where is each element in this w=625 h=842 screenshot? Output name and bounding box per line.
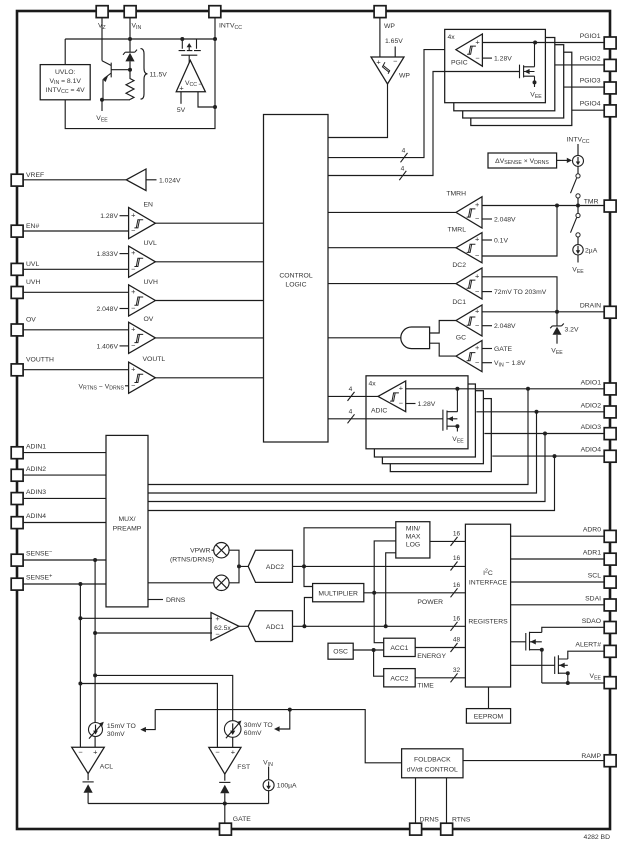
svg-text:ADIN4: ADIN4: [26, 513, 46, 520]
wire dV box to current source: [557, 159, 568, 161]
node ADC1 to MIN/MAX junction: [384, 624, 388, 628]
pin UVL: [11, 263, 23, 275]
zener diode D1: [123, 50, 137, 55]
pin VEE: [604, 677, 616, 689]
bus slash 32 TIME: [451, 673, 458, 682]
wire SDAI: [511, 604, 605, 606]
svg-text:ACC2: ACC2: [390, 675, 408, 682]
svg-text:48: 48: [453, 637, 461, 644]
svg-text:EEPROM: EEPROM: [474, 714, 504, 721]
wire ADIO2 to mux input 2: [148, 412, 537, 493]
svg-text:PREAMP: PREAMP: [113, 525, 142, 532]
pin OV: [11, 324, 23, 336]
wire ADC1 node to MIN/MAX: [386, 553, 396, 627]
wire ADIO4 to mux input 4: [148, 456, 555, 510]
svg-text:MAX: MAX: [406, 534, 421, 541]
svg-text:UVL: UVL: [144, 240, 157, 247]
wire DC1+ to DRAIN pin: [482, 311, 604, 313]
switch S2: [577, 206, 579, 214]
node M1 source junction: [540, 648, 544, 652]
wire SENSE+ branch to FST-: [80, 684, 217, 748]
comparator TMRL: [456, 233, 482, 263]
svg-text:1.28V: 1.28V: [100, 213, 118, 220]
svg-text:ADR0: ADR0: [583, 527, 601, 534]
node ADC1 output junction: [302, 624, 306, 628]
wire multiplier node to ACC1: [374, 593, 384, 643]
block I2C INTERFACE REGISTERS: [465, 524, 510, 687]
wire multiplier nodes to ADC2: [229, 550, 248, 583]
svg-text:ADR1: ADR1: [583, 550, 601, 557]
value 0.1V ref for TMRL: [482, 239, 492, 241]
svg-text:−: −: [475, 214, 479, 223]
op-amp VCC regulator: [176, 60, 205, 92]
svg-text:−: −: [475, 287, 479, 296]
op-amp VREF buffer 1.024V: [126, 169, 146, 191]
node ADIO3 mux tap: [543, 432, 547, 436]
wire SENSE- to 62.5x: [95, 632, 212, 634]
svg-text:OSC: OSC: [333, 649, 348, 656]
svg-text:REGISTERS: REGISTERS: [468, 619, 508, 626]
pin ALERT#: [604, 645, 616, 657]
wire SCL: [511, 581, 605, 583]
svg-text:+: +: [131, 248, 135, 257]
block EEPROM: [466, 709, 510, 724]
node VIN top wire junction: [128, 37, 132, 41]
svg-text:1.833V: 1.833V: [96, 251, 118, 258]
diode ACL output: [87, 774, 89, 781]
block UVLO: [40, 65, 90, 100]
svg-text:ADIN2: ADIN2: [26, 466, 46, 473]
svg-text:ΔVSENSE × VDRNS: ΔVSENSE × VDRNS: [495, 158, 549, 166]
wire GATE rail: [88, 803, 269, 805]
pin ADIN4: [11, 517, 23, 529]
wire I2C to SDAO gate: [511, 641, 526, 643]
wire DC2+ to DRAIN node: [482, 277, 557, 312]
current source 100uA gate pullup: [268, 767, 270, 780]
block MULTIPLIER: [313, 584, 364, 602]
node FST diode to GATE rail: [223, 802, 227, 806]
wire emitter rail to resistor bottom: [102, 99, 130, 101]
wire ADC2 output bus to I2C: [293, 565, 466, 567]
wire ADIN2 pin to mux: [23, 474, 106, 476]
wire SENSE- pin to mux: [23, 559, 106, 561]
brace 11.5V: [141, 49, 148, 100]
node SENSE- to FST branch: [93, 673, 97, 677]
transistor M0 PMOS pass device: [179, 39, 201, 51]
svg-text:VREF: VREF: [26, 172, 44, 179]
transistor Q1 NPN: [102, 61, 111, 100]
svg-text:−: −: [399, 399, 403, 408]
wire VZ pin to NPN collector: [101, 17, 103, 61]
svg-text:TMRH: TMRH: [446, 191, 466, 198]
wire SENSE+ vertical: [79, 584, 81, 747]
wire 4-bit bus control logic to ADIC gate: [328, 418, 443, 420]
pin GATE: [220, 823, 232, 835]
wire top loop of UVLO circuit: [65, 39, 215, 129]
svg-text:MUX/: MUX/: [119, 516, 136, 523]
svg-text:DRNS: DRNS: [420, 816, 440, 823]
wire OSC node to ACC2: [374, 650, 384, 676]
wire 62.5x to ADC1: [239, 625, 248, 627]
svg-text:UVL: UVL: [26, 261, 39, 268]
wire UVH pin to UVH comparator: [23, 291, 129, 293]
svg-text:+: +: [399, 383, 403, 392]
current source ACL threshold 15-30mV: [89, 723, 103, 737]
node base-zener junction: [128, 68, 132, 72]
svg-text:−: −: [131, 226, 135, 235]
wire RTNS drop: [446, 778, 448, 823]
svg-text:ADIO4: ADIO4: [581, 447, 602, 454]
pin RAMP: [604, 755, 616, 767]
wire ADIC output to ADIO1 pin: [406, 388, 605, 390]
value GATE ref for GC: [482, 348, 492, 350]
svg-text:GATE: GATE: [233, 816, 251, 823]
pin ADIO3: [604, 428, 616, 440]
svg-text:GC: GC: [456, 335, 466, 342]
pin DRAIN: [604, 306, 616, 318]
svg-text:ALERT#: ALERT#: [575, 642, 601, 649]
pin PGIO1: [604, 37, 616, 49]
pin TMR: [604, 200, 616, 212]
svg-text:+: +: [475, 235, 479, 244]
bus slash 16 POWER: [451, 588, 458, 597]
svg-text:RAMP: RAMP: [581, 753, 601, 760]
node PMOS source junction: [180, 37, 184, 41]
block PGIC stacked instance 4: [471, 52, 572, 125]
pin VREF: [11, 174, 23, 186]
wire control logic to DC2 input: [328, 283, 456, 285]
pin ADIO1: [604, 383, 616, 395]
svg-text:POWER: POWER: [417, 599, 443, 606]
switch S1: [577, 166, 579, 173]
svg-text:SCL: SCL: [588, 573, 601, 580]
svg-text:DC2: DC2: [452, 262, 466, 269]
block CONTROL LOGIC: [264, 115, 329, 443]
value 2.048V ref for TMRH: [482, 218, 492, 220]
svg-text:4: 4: [401, 165, 405, 172]
node TMR junction left: [555, 204, 559, 208]
wire ACC1 output ENERGY bus to I2C: [415, 647, 465, 649]
svg-text:+: +: [475, 306, 479, 315]
comparator ADIC: [378, 381, 406, 412]
wire DRNS drop: [415, 778, 417, 823]
svg-text:ADIO2: ADIO2: [581, 402, 602, 409]
node MOSFET source junction: [533, 80, 537, 84]
wire EN# pin to EN comparator: [23, 230, 129, 232]
svg-text:VIN = 8.1V: VIN = 8.1V: [49, 78, 81, 86]
wire OV pin to OV comparator: [23, 329, 129, 331]
svg-text:4x: 4x: [369, 380, 377, 387]
pin EN#: [11, 225, 23, 237]
svg-text:UVH: UVH: [26, 279, 40, 286]
wire GATE pin drop: [224, 804, 226, 824]
svg-text:2.048V: 2.048V: [494, 323, 516, 330]
wire I2C to ALERT gate: [511, 664, 555, 666]
svg-text:SDAI: SDAI: [585, 595, 601, 602]
wire ADIO3 pin to ADIC instance 3: [484, 433, 604, 435]
node VEE rail junction: [566, 681, 570, 685]
current source 2uA: [577, 237, 579, 245]
block ADC1: [248, 611, 292, 642]
svg-text:SENSE−: SENSE−: [26, 550, 53, 558]
pin ADIN1: [11, 447, 23, 459]
wire AND output to control logic: [328, 337, 401, 339]
svg-text:VOUTTH: VOUTTH: [26, 356, 54, 363]
pin ADIN3: [11, 493, 23, 505]
svg-text:VOUTL: VOUTL: [143, 356, 166, 363]
wire DRNS stub on mux: [148, 599, 163, 601]
bus slash 48 ENERGY: [451, 643, 458, 652]
wire ADR0: [511, 535, 605, 537]
svg-text:5V: 5V: [177, 107, 186, 114]
svg-text:VRTNS − VDRNS: VRTNS − VDRNS: [78, 383, 124, 391]
svg-text:VPWR: VPWR: [190, 548, 210, 555]
svg-text:LOGIC: LOGIC: [285, 281, 306, 288]
node PGIC output junction: [533, 41, 537, 45]
wire SDAO pin to M1 drain: [542, 627, 604, 632]
node ADIO1 mux tap: [526, 387, 530, 391]
wire ALERT pin to M2 drain: [568, 651, 604, 659]
wire ADIO2 pin to ADIC instance 2: [476, 411, 604, 413]
gate AND1: [401, 327, 430, 349]
svg-text:1.024V: 1.024V: [159, 177, 181, 184]
svg-text:RTNS: RTNS: [452, 816, 471, 823]
svg-text:+: +: [215, 614, 219, 623]
svg-text:INTERFACE: INTERFACE: [469, 580, 508, 587]
wire INTVCC pin column: [214, 17, 216, 39]
svg-text:−: −: [393, 57, 397, 66]
svg-text:0.1V: 0.1V: [494, 238, 508, 245]
wire ADIN3 pin to mux: [23, 497, 106, 499]
wire 5V input stub: [180, 92, 182, 104]
svg-text:+: +: [179, 84, 183, 93]
node emitter rail junction: [100, 98, 104, 102]
svg-text:MULTIPLIER: MULTIPLIER: [318, 590, 358, 597]
bus slash 16 MIN/MAX: [451, 537, 458, 546]
wire UVH output to control logic: [155, 300, 263, 302]
wire PGIC gate input: [445, 71, 520, 73]
block MIN/MAX LOG: [396, 522, 430, 558]
pin VZ: [96, 6, 108, 18]
block PGIC stacked instance 3: [463, 45, 564, 118]
comparator UVL: [129, 246, 156, 277]
wire VIN pin down through zener node: [129, 17, 131, 52]
node multiplier output junction: [372, 591, 376, 595]
svg-text:SENSE+: SENSE+: [26, 574, 53, 582]
wire PGIO3 pin to PGIC instance 3: [564, 86, 605, 88]
wire ADIO1 to mux input 1: [148, 389, 528, 485]
block ACC2: [384, 669, 416, 687]
svg-text:ADIC: ADIC: [371, 407, 387, 414]
pin PGIO4: [604, 105, 616, 117]
pin VIN: [124, 6, 136, 18]
wire ADC1 output bus to I2C: [293, 625, 466, 627]
svg-text:11.5V: 11.5V: [150, 72, 168, 79]
node SENSE+ to FST branch: [78, 682, 82, 686]
zener diode D2 3.2V: [550, 312, 564, 329]
svg-text:1.28V: 1.28V: [494, 56, 512, 63]
svg-text:−: −: [78, 748, 82, 757]
svg-text:UVH: UVH: [144, 279, 158, 286]
svg-text:4: 4: [349, 386, 353, 393]
svg-text:30mV TO: 30mV TO: [244, 722, 273, 729]
pin DRNS: [410, 823, 422, 835]
svg-text:15mV TO: 15mV TO: [107, 723, 136, 730]
svg-text:−: −: [131, 265, 135, 274]
node ADIC source junction: [455, 424, 459, 428]
wire ADR1: [511, 558, 605, 560]
wire ACC2 output TIME bus to I2C: [415, 677, 465, 679]
wire PGIO4 pin to PGIC instance 4: [572, 109, 604, 111]
svg-text:72mV TO 203mV: 72mV TO 203mV: [494, 289, 547, 296]
svg-text:−: −: [475, 251, 479, 260]
comparator DC1: [456, 305, 482, 336]
svg-text:TMR: TMR: [584, 199, 599, 206]
svg-text:WP: WP: [399, 73, 410, 80]
transistor M-ADIO: [443, 389, 458, 432]
wire GC output to AND input 2: [430, 343, 456, 356]
node SENSE+ tap: [78, 582, 82, 586]
svg-text:16: 16: [453, 555, 461, 562]
svg-text:+: +: [93, 748, 97, 757]
svg-text:DC1: DC1: [452, 299, 466, 306]
wire multiplier output POWER bus to I2C: [364, 592, 466, 594]
svg-text:2.048V: 2.048V: [494, 217, 516, 224]
node ADC2 output junction: [302, 564, 306, 568]
wire ADC1 node to multiplier: [304, 598, 312, 627]
svg-text:OV: OV: [144, 316, 154, 323]
comparator VOUTL: [129, 362, 156, 393]
wire control logic to TMRL input: [328, 247, 456, 249]
svg-text:ADIN3: ADIN3: [26, 489, 46, 496]
svg-text:4x: 4x: [448, 34, 456, 41]
resistor R1: [126, 70, 134, 100]
block PGIC stacked instance 2: [454, 38, 555, 111]
svg-text:UVLO:: UVLO:: [55, 69, 76, 76]
svg-text:16: 16: [453, 582, 461, 589]
svg-text:+: +: [475, 38, 479, 47]
svg-text:FST: FST: [237, 764, 250, 771]
wire RAMP: [463, 760, 604, 762]
current source ITMR: [577, 144, 579, 155]
transistor M1 SDAO driver: [526, 632, 542, 651]
pin ADIN2: [11, 469, 23, 481]
block ADIC stacked instance 4: [390, 399, 491, 472]
block OSC: [328, 643, 353, 659]
svg-text:+: +: [131, 210, 135, 219]
svg-text:−: −: [198, 80, 202, 89]
wire WP pin to comparator: [379, 17, 381, 57]
svg-text:30mV: 30mV: [107, 731, 125, 738]
node ADC2 input junction: [237, 564, 241, 568]
wire current limit control from foldback: [155, 710, 401, 763]
pin WP: [374, 6, 386, 18]
svg-text:4: 4: [402, 148, 406, 155]
svg-text:PGIC: PGIC: [451, 60, 468, 67]
svg-text:−: −: [131, 381, 135, 390]
svg-text:16: 16: [453, 530, 461, 537]
bus slash 16 ADC1: [451, 622, 458, 631]
node ADIO4 mux tap: [553, 454, 557, 458]
wire UVL pin to UVL comparator: [23, 268, 129, 270]
wire 4-bit bus control logic to PGIC comparator: [328, 50, 456, 158]
svg-text:ACC1: ACC1: [390, 645, 408, 652]
svg-text:OV: OV: [26, 317, 36, 324]
svg-text:+: +: [475, 200, 479, 209]
wire TMRH+ to TMR pin: [482, 205, 604, 207]
comparator WP: [371, 57, 404, 84]
pin PGIO2: [604, 59, 616, 71]
op-amp ACL current limit: [72, 747, 105, 773]
wire base to zener node: [111, 69, 130, 71]
wire ADIO4 pin to ADIC instance 4: [492, 455, 604, 457]
comparator TMRH: [456, 197, 482, 228]
wire ACL control arrow: [145, 710, 156, 730]
svg-text:16: 16: [453, 615, 461, 622]
svg-text:32: 32: [453, 667, 461, 674]
pin PGIO3: [604, 82, 616, 94]
svg-text:−: −: [131, 304, 135, 313]
svg-text:2µA: 2µA: [585, 247, 598, 254]
wire M2 source to VEE rail: [567, 673, 569, 683]
svg-text:TIME: TIME: [418, 682, 435, 689]
pin ADR0: [604, 530, 616, 542]
node OSC output junction: [372, 648, 376, 652]
value 1.28V ref for PGIC: [482, 57, 492, 59]
node ADIC output junction: [455, 387, 459, 391]
node M2 source junction: [566, 671, 570, 675]
wire ADIO3 to mux input 3: [148, 434, 545, 502]
transistor M2 ALERT driver: [555, 655, 568, 674]
value 72mV TO 203mV ref for DC2: [482, 291, 492, 293]
svg-text:ADIO3: ADIO3: [581, 424, 602, 431]
block ACC1: [384, 638, 416, 656]
svg-text:+: +: [475, 343, 479, 352]
svg-text:60mV: 60mV: [244, 730, 262, 737]
wire OSC to ACC1: [353, 649, 384, 651]
wire amp output to INTVCC column: [198, 92, 215, 107]
svg-text:EN: EN: [144, 202, 154, 209]
wire DC1 output to AND input 1: [430, 321, 456, 334]
wire PGIC output to PGIO1 pin: [482, 42, 604, 44]
svg-text:ACL: ACL: [100, 764, 113, 771]
block dVsense x Vdrns: [488, 153, 557, 168]
pin SENSE+: [11, 578, 23, 590]
svg-text:DRNS: DRNS: [166, 597, 186, 604]
node amp output junction: [213, 105, 217, 109]
pin SDAO: [604, 622, 616, 634]
svg-text:I2C: I2C: [483, 569, 493, 577]
pin INTVCC: [209, 6, 221, 18]
svg-text:+: +: [131, 287, 135, 296]
svg-text:−: −: [475, 358, 479, 367]
svg-text:−: −: [475, 321, 479, 330]
svg-text:+: +: [131, 324, 135, 333]
wire SENSE+ pin to mux: [23, 583, 106, 585]
svg-text:VCC: VCC: [185, 80, 197, 88]
comparator OV: [129, 322, 156, 353]
svg-text:dV/dt CONTROL: dV/dt CONTROL: [407, 766, 458, 773]
current source FST threshold 30-60mV: [224, 721, 241, 738]
svg-text:TMRL: TMRL: [447, 227, 466, 234]
svg-text:−: −: [215, 748, 219, 757]
multiplier node lower: [214, 575, 229, 590]
svg-text:ADC1: ADC1: [266, 624, 284, 631]
comparator PGIC: [456, 34, 483, 66]
svg-text:−: −: [475, 53, 479, 62]
wire multiplier node to MIN/MAX: [374, 541, 396, 593]
svg-text:CONTROL: CONTROL: [279, 273, 312, 280]
